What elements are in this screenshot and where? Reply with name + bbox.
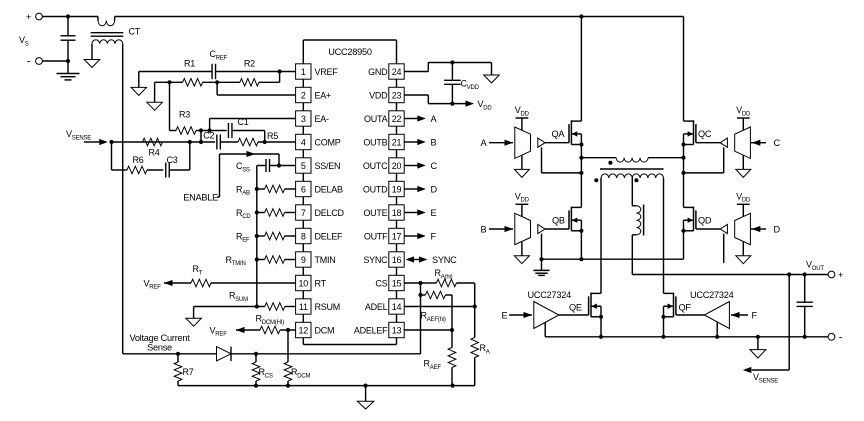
svg-text:QA: QA [552, 129, 566, 139]
svg-text:SS/EN: SS/EN [315, 161, 341, 171]
svg-text:OUTD: OUTD [363, 184, 388, 194]
svg-text:COMP: COMP [315, 137, 341, 147]
svg-text:3: 3 [301, 114, 306, 124]
svg-text:9: 9 [301, 255, 306, 265]
svg-text:13: 13 [392, 325, 402, 335]
svg-text:QF: QF [679, 303, 692, 313]
svg-text:R1: R1 [184, 59, 195, 69]
svg-text:22: 22 [392, 114, 402, 124]
svg-text:OUTC: OUTC [363, 161, 388, 171]
svg-text:SYNC: SYNC [363, 255, 388, 265]
svg-text:UCC27324: UCC27324 [528, 290, 572, 300]
svg-text:ADEL: ADEL [365, 302, 388, 312]
svg-text:DELEF: DELEF [315, 231, 344, 241]
svg-text:RSUM: RSUM [315, 302, 341, 312]
svg-text:Sense: Sense [147, 343, 172, 353]
svg-text:21: 21 [392, 137, 402, 147]
svg-text:UCC27324: UCC27324 [690, 290, 734, 300]
svg-text:QC: QC [698, 129, 712, 139]
svg-text:C2: C2 [203, 131, 214, 141]
svg-text:C3: C3 [166, 155, 177, 165]
svg-text:23: 23 [392, 90, 402, 100]
svg-text:R7: R7 [183, 367, 194, 377]
svg-text:+: + [838, 270, 844, 281]
svg-text:-: - [27, 56, 31, 68]
svg-text:D: D [431, 184, 438, 194]
svg-text:GND: GND [368, 67, 388, 77]
svg-text:R4: R4 [148, 147, 159, 157]
svg-text:D: D [774, 224, 781, 234]
svg-text:CT: CT [129, 27, 141, 37]
svg-text:10: 10 [299, 278, 309, 288]
svg-text:QE: QE [569, 303, 582, 313]
svg-text:4: 4 [301, 137, 306, 147]
svg-text:E: E [502, 310, 508, 320]
svg-text:TMIN: TMIN [315, 255, 336, 265]
svg-text:5: 5 [301, 161, 306, 171]
svg-text:C: C [431, 161, 438, 171]
svg-text:VDD: VDD [369, 90, 388, 100]
svg-text:11: 11 [299, 302, 308, 312]
svg-text:14: 14 [392, 302, 402, 312]
svg-text:DCM: DCM [315, 325, 335, 335]
svg-text:UCC28950: UCC28950 [328, 47, 372, 57]
svg-text:EA-: EA- [315, 114, 330, 124]
svg-text:7: 7 [301, 208, 306, 218]
svg-text:Voltage Current: Voltage Current [129, 333, 190, 343]
svg-text:B: B [481, 224, 487, 234]
svg-text:DELCD: DELCD [315, 208, 345, 218]
svg-text:OUTE: OUTE [363, 208, 387, 218]
svg-text:OUTF: OUTF [364, 231, 388, 241]
svg-text:2: 2 [301, 90, 306, 100]
svg-text:OUTB: OUTB [363, 137, 387, 147]
svg-text:ADELEF: ADELEF [354, 325, 388, 335]
svg-text:R3: R3 [179, 109, 190, 119]
svg-text:F: F [752, 310, 758, 320]
svg-text:QB: QB [552, 216, 565, 226]
svg-text:+: + [26, 12, 32, 23]
svg-text:18: 18 [392, 208, 402, 218]
svg-text:R5: R5 [267, 131, 278, 141]
svg-text:OUTA: OUTA [364, 114, 388, 124]
svg-text:19: 19 [392, 184, 402, 194]
svg-text:SYNC: SYNC [432, 255, 457, 265]
svg-text:CS: CS [375, 278, 387, 288]
svg-text:24: 24 [392, 67, 402, 77]
svg-text:R6: R6 [132, 155, 143, 165]
svg-text:1: 1 [301, 67, 306, 77]
svg-text:16: 16 [392, 255, 402, 265]
svg-text:VREF: VREF [315, 67, 339, 77]
svg-text:17: 17 [392, 231, 402, 241]
svg-text:-: - [839, 331, 843, 343]
svg-text:QD: QD [698, 216, 712, 226]
svg-text:15: 15 [392, 278, 402, 288]
svg-text:E: E [431, 208, 437, 218]
svg-text:C1: C1 [237, 117, 248, 127]
svg-text:C: C [774, 138, 781, 148]
svg-text:EA+: EA+ [315, 90, 332, 100]
svg-text:R2: R2 [244, 59, 255, 69]
svg-text:DELAB: DELAB [315, 184, 344, 194]
svg-text:B: B [431, 137, 437, 147]
svg-text:6: 6 [301, 184, 306, 194]
svg-text:F: F [431, 231, 437, 241]
svg-text:12: 12 [299, 325, 309, 335]
svg-text:20: 20 [392, 161, 402, 171]
svg-text:RT: RT [315, 278, 327, 288]
svg-text:8: 8 [301, 231, 306, 241]
svg-text:ENABLE: ENABLE [183, 193, 218, 203]
